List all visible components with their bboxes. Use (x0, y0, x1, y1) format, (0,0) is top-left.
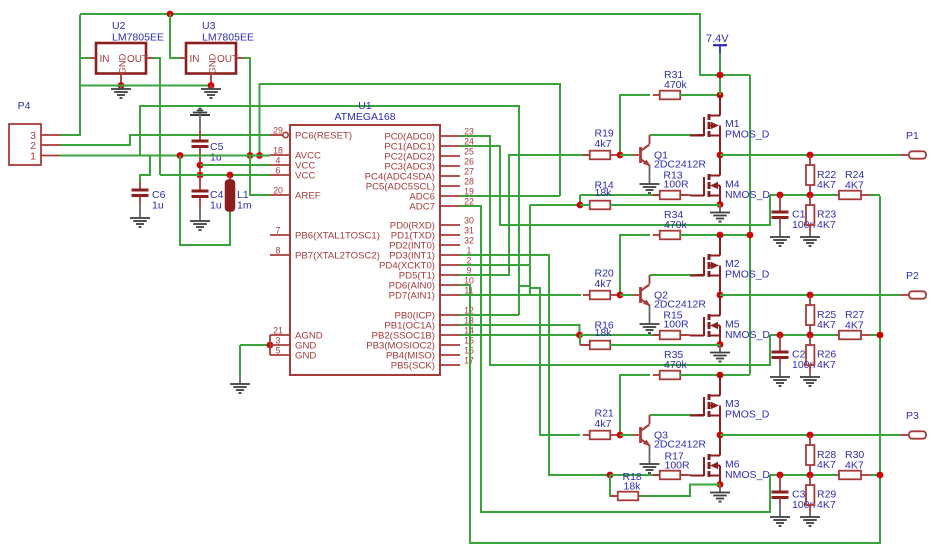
wire M4 source to ground (719, 196, 721, 205)
svg-text:100R: 100R (663, 179, 689, 191)
svg-text:IN: IN (190, 54, 200, 65)
U1 left pin 4 VCC (270, 164, 290, 166)
connector P1 (909, 151, 926, 158)
svg-text:P1: P1 (906, 130, 919, 142)
junction U2 gnd (118, 82, 125, 89)
svg-text:PMOS_D: PMOS_D (725, 129, 770, 141)
U1 right pin 31 PD1(TXD) (440, 234, 460, 236)
mosfet M5 NMOS_D (690, 312, 720, 339)
Q3 emitter to ground (649, 446, 651, 464)
wire pin9 T1 to R19 (460, 155, 590, 275)
wire base node to transistor 470k (620, 154, 633, 156)
wire gate node to R15 (580, 334, 660, 336)
junction pin13 gate node ch2 (576, 332, 583, 339)
resistor R26 (vertical) (809, 335, 811, 345)
svg-text:28: 28 (464, 177, 474, 187)
resistor R17 (653, 474, 660, 476)
U1 right pin 24 PC1(ADC1) (440, 145, 460, 147)
svg-text:1m: 1m (237, 200, 252, 212)
junction U3 out on AVCC row (247, 152, 254, 159)
ground below IC (230, 384, 250, 393)
svg-text:29: 29 (273, 126, 283, 136)
analog ground (190, 109, 210, 116)
svg-text:OUT: OUT (217, 54, 238, 65)
C3 plates (772, 491, 789, 494)
ground under M4 (710, 213, 730, 222)
wire VCC pin4 row (200, 164, 270, 166)
wire ADC6 sense: AVCC row to pin 19 (260, 84, 561, 196)
junction base node ch2 (617, 292, 624, 299)
wire AVCC row (60, 155, 270, 157)
svg-text:21: 21 (273, 326, 283, 336)
junction L1 top (227, 172, 234, 179)
junction return bus ch2 (877, 332, 884, 339)
junction divider top ch1 (807, 152, 814, 159)
wire R14 right to source (610, 204, 720, 206)
wire to digital ground symbol (239, 345, 241, 376)
svg-text:NMOS_D: NMOS_D (725, 329, 770, 341)
svg-text:4K7: 4K7 (817, 459, 836, 471)
P4 pin 3 stub (41, 134, 60, 136)
inductor L1 (229, 175, 231, 181)
U1 right pin 2 PD4(XCKT0) (440, 264, 460, 266)
resistor R31 (653, 94, 660, 96)
wire pin12 ICP row (460, 314, 519, 316)
svg-text:4k7: 4k7 (595, 278, 612, 290)
svg-text:IN: IN (100, 54, 110, 65)
svg-text:4K7: 4K7 (845, 460, 864, 472)
junction P1 node (717, 152, 724, 159)
junction M6 source (717, 481, 724, 488)
wire R16 left (580, 344, 590, 346)
wire divider node row ch2 (770, 334, 836, 336)
wire R31 right (680, 94, 720, 96)
junction ADC6 tap (256, 152, 263, 159)
svg-text:GND: GND (295, 351, 316, 362)
wire base node to transistor 470k (620, 294, 633, 296)
svg-text:PC6(RESET): PC6(RESET) (295, 131, 352, 142)
C6 plates (132, 189, 149, 192)
wire R14 left (580, 204, 590, 206)
wire M1 drain to P node (719, 135, 721, 156)
resistor R25 (vertical) (809, 295, 811, 305)
wire pin23 ADC0 to ch2 divider (460, 136, 770, 365)
ground under U3 (201, 89, 221, 98)
wire L1 return loop (180, 156, 230, 246)
wire U2 OUT to VCC row (146, 57, 153, 59)
svg-text:4K7: 4K7 (817, 499, 836, 511)
svg-text:1u: 1u (152, 200, 164, 212)
svg-text:PMOS_D: PMOS_D (725, 269, 770, 281)
transistor Q2 2DC2412R (641, 275, 651, 306)
svg-text:1: 1 (30, 151, 36, 163)
svg-text:2DC2412R: 2DC2412R (654, 439, 706, 451)
junction node/R (807, 472, 814, 479)
svg-text:4k7: 4k7 (595, 138, 612, 150)
junction R17/R18 node (607, 472, 614, 479)
resistor R19 (583, 154, 590, 156)
resistor R16 (583, 344, 590, 346)
svg-text:ADC7: ADC7 (409, 202, 435, 213)
supply symbol 7.4V (713, 44, 727, 46)
svg-text:ATMEGA168: ATMEGA168 (334, 111, 395, 123)
ground under R26 (800, 377, 820, 386)
svg-text:NMOS_D: NMOS_D (725, 189, 770, 201)
resistor R14 (583, 204, 590, 206)
junction node/C (777, 472, 784, 479)
resistor R13 (653, 194, 660, 196)
resistor R27 (836, 334, 839, 336)
ground under U2 (111, 89, 131, 98)
wire node to R17 (610, 474, 660, 476)
capacitor C5 (199, 130, 201, 140)
junction node/C (777, 332, 784, 339)
resistor R34 (653, 234, 660, 236)
Q1 emitter to ground (649, 166, 651, 184)
resistor R20 (583, 294, 590, 296)
svg-text:4K7: 4K7 (845, 320, 864, 332)
U1 right pin 11 PD7(AIN1) (440, 294, 460, 296)
wire pin11 AIN1 row to R20 (460, 294, 581, 296)
wire ch1 gate feed jog to ch3 base (530, 205, 580, 435)
svg-text:4K7: 4K7 (817, 219, 836, 231)
svg-text:470k: 470k (664, 219, 688, 231)
connector P4 (9, 124, 41, 165)
wire pin10 AIN0 to divider returns (460, 196, 880, 543)
U1 right pin 28 PC5(ADC5SCL) (440, 185, 460, 187)
svg-text:3: 3 (276, 336, 281, 346)
Q3 collector wire to M3 gate (649, 414, 651, 416)
wire AGND/GND pins to ground (240, 344, 270, 346)
wire M6 source to ground (719, 476, 721, 485)
svg-text:100R: 100R (665, 460, 691, 472)
junction P3 node (717, 432, 724, 439)
wire R34 left vertical (620, 235, 650, 295)
wire R15 to M5 gate (680, 334, 690, 336)
wire R16 right to source (610, 344, 720, 346)
svg-text:8: 8 (276, 246, 281, 256)
junction U3 gnd (208, 82, 215, 89)
U1 left pin 3 GND (270, 344, 290, 346)
ground under Q1 (640, 184, 660, 193)
resistor R23 (vertical) (809, 195, 811, 205)
Q2 collector wire to M2 gate (649, 274, 651, 276)
svg-text:4k7: 4k7 (595, 418, 612, 430)
wire pin22 ADC7 to ch3 divider (460, 206, 770, 512)
U1 right pin 17 PB5(SCK) (440, 364, 460, 366)
wire 7.4V into M3 source (719, 375, 721, 392)
mosfet M6 NMOS_D (690, 452, 720, 479)
ground under Q2 (640, 324, 660, 333)
wire pin1 INT1 to R17/R18 (460, 255, 610, 475)
junction node/R (807, 332, 814, 339)
junction return bus ch3 (877, 472, 884, 479)
wire R35 left vertical (620, 375, 650, 435)
wire R18 to M6 source (641, 485, 720, 497)
U1 right pin 23 PC0(ADC0) (440, 135, 460, 137)
svg-text:25: 25 (464, 147, 474, 157)
U1 right pin 25 PC2(ADC2) (440, 155, 460, 157)
junction R34 feed (717, 232, 724, 239)
svg-text:6: 6 (276, 166, 281, 176)
transistor Q3 2DC2412R (641, 415, 651, 446)
wire pin24 ADC1 to ch1 divider (460, 146, 770, 225)
wire pin2 XCKT0 row (460, 264, 530, 266)
capacitor C2 (779, 335, 781, 351)
wire P node to connector P2 (720, 294, 900, 296)
wire R30 to return bus (870, 474, 880, 476)
capacitor C3 (779, 475, 781, 491)
U1 right pin 9 PD5(T1) (440, 274, 460, 276)
svg-text:31: 31 (464, 226, 474, 236)
wire U3 OUT to AVCC row (236, 57, 243, 59)
junction base node ch3 (617, 432, 624, 439)
wire pin13 OC1A to ch2 gate node (460, 325, 580, 335)
C4 plates (192, 190, 209, 193)
U1 right pin 1 PD3(INT1) (440, 254, 460, 256)
svg-text:LM7805EE: LM7805EE (202, 32, 254, 44)
junction M5 source (717, 341, 724, 348)
resistor R30 (836, 474, 839, 476)
junction divider top ch3 (807, 432, 814, 439)
wire GND row under regulators (80, 85, 211, 87)
wire P node to connector P3 (720, 434, 900, 436)
U1 left pin 21 AGND (270, 334, 290, 336)
wire pin14 SSOC1B row to R15 (460, 334, 660, 336)
ground under C2 (770, 377, 790, 386)
svg-text:100R: 100R (663, 319, 689, 331)
U1 right pin 12 PB0(ICP) (440, 314, 460, 316)
svg-text:P3: P3 (906, 410, 919, 422)
U1 left pin 18 AVCC (270, 154, 290, 156)
wire M3 drain to P node (719, 415, 721, 436)
mosfet M3 PMOS_D (690, 392, 720, 419)
svg-text:LM7805EE: LM7805EE (112, 32, 164, 44)
U1 right pin 10 PD6(AIN0) (440, 284, 460, 286)
resistor R24 (836, 194, 839, 196)
wire: 7.4V battery top rail (80, 14, 720, 75)
wire P node to M6 drain (719, 435, 721, 456)
U1 right pin 22 ADC7 (440, 205, 460, 207)
junction R31 on 7.4V rail (717, 92, 724, 99)
wire gate node vertical (579, 195, 581, 205)
U1 right pin 14 PB2(SSOC1B) (440, 334, 460, 336)
junction supply rail (717, 72, 724, 79)
capacitor C4 (199, 174, 201, 190)
svg-text:PB6(XTAL1TOSC1): PB6(XTAL1TOSC1) (295, 231, 380, 242)
svg-text:P2: P2 (906, 270, 919, 282)
resistor R18 (611, 495, 618, 497)
ground under R23 (800, 237, 820, 246)
C5 plates (192, 140, 209, 143)
svg-text:VCC: VCC (295, 171, 315, 182)
svg-text:7: 7 (276, 226, 281, 236)
resistor R28 (vertical) (809, 435, 811, 445)
ground under Q3 (640, 464, 660, 473)
junction C5/VCC4 (197, 162, 204, 169)
svg-text:4K7: 4K7 (817, 359, 836, 371)
capacitor C6 (139, 182, 141, 189)
U2 GND pin to ground (120, 74, 122, 86)
svg-text:7.4V: 7.4V (706, 33, 729, 45)
wire gate node to R13 (580, 194, 660, 196)
wire R17 to M6 gate (680, 474, 690, 476)
svg-text:18k: 18k (595, 187, 613, 199)
ground under C4 (190, 221, 210, 230)
wire supply to rail (719, 53, 721, 75)
junction P2 node (717, 292, 724, 299)
svg-text:GND: GND (118, 53, 128, 74)
svg-text:4K7: 4K7 (817, 319, 836, 331)
wire P node to M5 drain (719, 295, 721, 316)
svg-text:470k: 470k (664, 359, 688, 371)
wire M2 drain to P node (719, 275, 721, 296)
U1 left pin 20 AREF (270, 194, 290, 196)
svg-text:470k: 470k (664, 79, 688, 91)
wire base node to transistor 470k (620, 434, 633, 436)
junction GND pins (267, 342, 274, 349)
svg-text:OUT: OUT (127, 54, 148, 65)
junction top rail (167, 11, 174, 18)
U1 left pin 8 PB7(XTAL2TOSC2) (270, 254, 290, 256)
svg-text:4: 4 (276, 156, 281, 166)
wire R31 left vertical (620, 95, 650, 155)
P4 pin 2 stub (41, 144, 60, 146)
U1 left pin 6 VCC (270, 174, 290, 176)
junction AVCC/L1 return (177, 152, 184, 159)
junction base node ch1 (617, 152, 624, 159)
ground under C6 (130, 218, 150, 227)
svg-text:PB5(SCK): PB5(SCK) (391, 361, 435, 372)
svg-text:1u: 1u (210, 200, 222, 212)
svg-text:PB7(XTAL2TOSC2): PB7(XTAL2TOSC2) (295, 251, 380, 262)
wire node down to R18 (610, 475, 615, 496)
regulator U2 (96, 43, 146, 74)
wire AIN1 feed from AVCC (140, 106, 519, 315)
U1 left pin 29 PC6(RESET) (270, 134, 283, 136)
U1 right pin 32 PD2(INT0) (440, 244, 460, 246)
junction C5/VCC6 (197, 172, 204, 179)
connector P3 (909, 431, 926, 438)
svg-text:32: 32 (464, 236, 474, 246)
wire P node to M4 drain (719, 155, 721, 176)
wire 7.4V into M2 source (719, 235, 721, 252)
C1 plates (772, 211, 789, 214)
wire pin19 ADC6 row (460, 195, 560, 197)
ground under C3 (770, 517, 790, 526)
wire R35 right (680, 374, 750, 376)
U1 right pin 19 ADC6 (440, 195, 460, 197)
wire C6 jog to AVCC (140, 156, 150, 183)
ground under R29 (800, 517, 820, 526)
mosfet M4 NMOS_D (690, 172, 720, 199)
wire P4.3 to battery rail (60, 15, 80, 136)
junction node/C (777, 192, 784, 199)
ground under C1 (770, 237, 790, 246)
regulator U3 (186, 43, 236, 74)
wire P node to connector P1 (720, 154, 900, 156)
wire U2 IN (80, 57, 90, 59)
wire R34 right (680, 234, 750, 236)
wire P4.2 to RESET row (60, 135, 270, 145)
svg-text:PMOS_D: PMOS_D (725, 409, 770, 421)
svg-text:GND: GND (208, 53, 218, 74)
svg-text:27: 27 (464, 167, 474, 177)
svg-text:20: 20 (273, 186, 283, 196)
svg-text:1u: 1u (210, 152, 222, 164)
ground under M5 (710, 353, 730, 362)
wire 7.4V into M1 source (719, 75, 721, 95)
ground under M6 (710, 493, 730, 502)
GND pin tie bar (269, 335, 271, 355)
wire R24 to return bus (870, 194, 880, 196)
resistor R35 (653, 374, 660, 376)
C2 plates (772, 351, 789, 354)
svg-text:18k: 18k (624, 481, 642, 493)
svg-text:4K7: 4K7 (845, 180, 864, 192)
wire R27 to return bus (870, 334, 880, 336)
svg-text:5: 5 (276, 346, 281, 356)
svg-text:30: 30 (464, 216, 474, 226)
Q1 collector wire to M1 gate (649, 134, 651, 136)
wire VCC pin6 row (160, 174, 270, 176)
junction gate node ch1 (577, 202, 584, 209)
junction divider top ch2 (807, 292, 814, 299)
wire U3 IN from rail (170, 14, 180, 58)
svg-text:4K7: 4K7 (817, 179, 836, 191)
U1 right pin 13 PB1(OC1A) (440, 324, 460, 326)
U1 right pin 16 PB4(MISO) (440, 354, 460, 356)
mosfet M1 PMOS_D (690, 112, 720, 139)
svg-text:NMOS_D: NMOS_D (725, 469, 770, 481)
U1 right pin 27 PC4(ADC4SDA) (440, 175, 460, 177)
wire divider node row ch3 (770, 474, 836, 476)
svg-text:U2: U2 (112, 20, 126, 32)
capacitor C1 (779, 195, 781, 211)
svg-text:26: 26 (464, 157, 474, 167)
U1 left pin 5 GND (270, 354, 290, 356)
wire gate node vertical (579, 335, 581, 345)
U1 left pin 7 PB6(XTAL1TOSC1) (270, 234, 290, 236)
resistor R15 (653, 334, 660, 336)
Q2 emitter to ground (649, 306, 651, 324)
U1 right pin 26 PC3(ADC3) (440, 165, 460, 167)
wire R13 to M4 gate (680, 194, 690, 196)
svg-text:AREF: AREF (295, 191, 321, 202)
junction node/R (807, 192, 814, 199)
wire M5 source to ground (719, 336, 721, 345)
svg-text:PD7(AIN1): PD7(AIN1) (389, 291, 435, 302)
junction 7.4V trunk (747, 232, 754, 239)
wire 7.4V trunk (720, 74, 750, 76)
svg-text:18k: 18k (595, 327, 613, 339)
wire divider node row ch1 (770, 194, 836, 196)
transistor Q1 2DC2412R (641, 135, 651, 166)
P4 pin 1 stub (41, 155, 60, 157)
resistor R22 (vertical) (809, 155, 811, 165)
svg-text:U3: U3 (202, 20, 216, 32)
svg-text:18: 18 (273, 146, 283, 156)
resistor R29 (vertical) (809, 475, 811, 485)
wire ch1 gate node horizontal (530, 204, 580, 206)
U3 GND pin to ground (210, 74, 212, 86)
junction M4 source (717, 201, 724, 208)
svg-text:P4: P4 (18, 100, 31, 112)
resistor R21 (583, 434, 590, 436)
U1 right pin 30 PD0(RXD) (440, 224, 460, 226)
mosfet M2 PMOS_D (690, 252, 720, 279)
U1 right pin 15 PB3(MOSIOC2) (440, 344, 460, 346)
